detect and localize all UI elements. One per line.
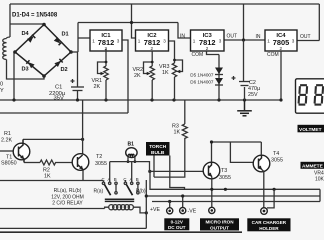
svg-text:2K: 2K [134, 73, 141, 79]
svg-text:1K: 1K [162, 70, 169, 76]
svg-text:1: 1 [193, 39, 196, 44]
svg-text:T3: T3 [221, 168, 227, 174]
svg-text:3055: 3055 [219, 175, 231, 181]
svg-text:10K: 10K [315, 177, 324, 183]
svg-text:+VE: +VE [150, 207, 160, 213]
svg-text:12V, 200 OHM: 12V, 200 OHM [51, 194, 84, 200]
svg-text:3: 3 [219, 39, 222, 44]
svg-text:T2: T2 [96, 154, 102, 160]
svg-text:AMMETE: AMMETE [302, 164, 324, 170]
svg-text:1: 1 [92, 39, 95, 44]
svg-text:S8050: S8050 [1, 161, 17, 167]
svg-text:B1: B1 [128, 141, 135, 147]
svg-text:0: 0 [0, 82, 3, 88]
svg-text:D5 1N4007: D5 1N4007 [190, 72, 214, 77]
svg-text:2K: 2K [94, 84, 101, 90]
svg-text:R1: R1 [4, 131, 11, 137]
svg-text:CAR CHARGER: CAR CHARGER [252, 220, 287, 225]
svg-text:3: 3 [117, 39, 120, 44]
svg-text:D1: D1 [62, 32, 69, 38]
svg-text:D3: D3 [22, 67, 29, 73]
svg-text:2: 2 [280, 46, 283, 51]
svg-text:R(a): R(a) [94, 189, 104, 195]
svg-text:D4: D4 [22, 31, 30, 37]
svg-text:TORCH: TORCH [149, 144, 167, 150]
svg-text:25V: 25V [248, 92, 258, 98]
svg-text:3055: 3055 [95, 161, 107, 167]
svg-text:2 C/O RELAY: 2 C/O RELAY [52, 201, 83, 207]
svg-text:1K: 1K [44, 174, 51, 180]
svg-text:C1: C1 [55, 85, 62, 91]
svg-text:D6 1N4007: D6 1N4007 [190, 79, 214, 84]
svg-text:IN: IN [180, 34, 185, 40]
svg-text:T4: T4 [273, 151, 279, 157]
svg-text:MICRO IRON: MICRO IRON [205, 220, 234, 225]
svg-text:1: 1 [267, 39, 270, 44]
svg-text:0-12V: 0-12V [171, 220, 184, 225]
svg-text:RL(a), RL(b): RL(a), RL(b) [54, 188, 82, 194]
svg-text:COM: COM [192, 52, 204, 58]
svg-text:OUT: OUT [300, 34, 311, 40]
svg-text:D2: D2 [61, 67, 68, 73]
svg-text:B: B [114, 177, 117, 182]
svg-text:OUTPUT: OUTPUT [210, 225, 229, 230]
svg-text:1K: 1K [174, 130, 181, 136]
svg-text:2: 2 [151, 46, 154, 51]
svg-text:3055: 3055 [271, 158, 283, 164]
svg-text:Y: Y [0, 88, 4, 94]
svg-text:IN: IN [256, 34, 261, 40]
svg-text:3: 3 [292, 39, 295, 44]
svg-text:HOLDER: HOLDER [259, 226, 279, 231]
svg-text:D1-D4 = 1N5408: D1-D4 = 1N5408 [12, 13, 58, 19]
svg-text:2.2K: 2.2K [1, 138, 12, 144]
svg-text:3: 3 [163, 39, 166, 44]
svg-text:BULB: BULB [151, 150, 165, 156]
svg-text:COM: COM [267, 52, 279, 58]
svg-text:DC OUT: DC OUT [168, 225, 186, 230]
svg-text:OUT: OUT [227, 34, 238, 40]
svg-text:2: 2 [206, 46, 209, 51]
svg-text:1: 1 [138, 39, 141, 44]
svg-text:B: B [136, 177, 139, 182]
svg-text:VOLTMET: VOLTMET [299, 127, 322, 133]
svg-text:-VE: -VE [188, 209, 197, 215]
